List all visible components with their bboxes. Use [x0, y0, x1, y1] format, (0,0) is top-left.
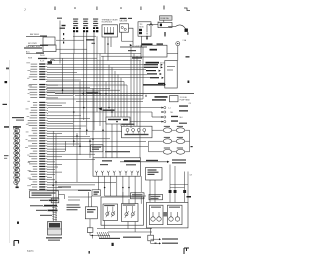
bulkhead connector column: [14, 126, 20, 184]
note rows: [40, 200, 48, 201]
trailer labels: [172, 159, 186, 160]
EEC input wire 4: [147, 73, 157, 74]
coil connector: [51, 198, 59, 203]
wire fuel relay leg 2: [154, 180, 156, 202]
lamp oval row 1: [159, 126, 190, 133]
EEC input wire 2: [144, 67, 158, 68]
inline connector box: [170, 96, 179, 102]
page fold line: [8, 60, 10, 243]
svg-text:BAT FEED: BAT FEED: [30, 33, 40, 36]
TFI module label: [120, 18, 127, 19]
harness junction wire: [120, 46, 147, 48]
thick feed wire with arrow: [143, 84, 163, 85]
wire row 101.5: [76, 101, 143, 103]
margin dot right: [188, 81, 190, 84]
connector pin column 1 labels: [73, 19, 78, 20]
wire start feed: [24, 47, 42, 48]
harness wires from label column: [47, 65, 150, 190]
sender wire 3: [152, 116, 162, 118]
connector plate box: [106, 117, 130, 124]
svg-text:2 6A: 2 6A: [183, 39, 187, 42]
wire row 58: [44, 57, 97, 59]
svg-text:SOLENOIDS: SOLENOIDS: [102, 22, 113, 24]
power ground distribution box: [93, 158, 141, 176]
ignition switch box upper: [43, 37, 55, 45]
distributor lower wire: [89, 219, 91, 228]
fusible link wire: [147, 24, 158, 26]
lamp oval row 3: [159, 148, 190, 155]
main bus wire: [55, 93, 194, 95]
connector pin column 3 labels: [93, 19, 98, 20]
fuel pump relay box: [146, 168, 163, 181]
wire row 92: [46, 91, 100, 93]
wire code text ORG BLK: [132, 57, 142, 58]
distributor wires: [87, 192, 89, 207]
distributor ground wires: [89, 232, 91, 235]
pin bus wire: [73, 35, 96, 37]
lamp oval row 2: [159, 137, 190, 144]
instrument cluster box: [122, 126, 153, 138]
svg-text:RUN: RUN: [28, 58, 33, 60]
power ground label: [105, 151, 130, 152]
fuse 20A box: [160, 16, 173, 20]
svg-text:54673: 54673: [27, 251, 34, 253]
connector terminal block: [185, 29, 188, 32]
svg-text:J: J: [24, 8, 26, 12]
oval left link wire: [148, 141, 150, 152]
wire row 99: [46, 98, 143, 100]
distributor box: [85, 207, 97, 219]
footer pilcrow: [14, 241, 19, 247]
relay bottom bus 1: [97, 228, 152, 230]
wire row 56: [101, 55, 141, 57]
top margin corner mark: [184, 8, 190, 11]
label under power box: [146, 62, 160, 64]
oval right link wire: [189, 130, 191, 152]
hot at all times header: [142, 43, 153, 45]
sender wire 2: [48, 111, 152, 113]
distributor connector: [87, 228, 93, 233]
wire from pin column 1: [73, 32, 75, 53]
wire row 85: [46, 84, 127, 86]
wire sender leg 4: [187, 172, 189, 203]
sender wire 1: [48, 107, 162, 109]
EEC input wire 3: [146, 70, 156, 71]
wire EGR right branch: [129, 28, 134, 47]
EEC input wire 5: [150, 77, 159, 78]
relay feed bus: [105, 195, 146, 197]
svg-text:C-1: C-1: [168, 108, 171, 110]
connector box C-102: [92, 190, 101, 196]
wire arc small: [50, 59, 55, 60]
margin mark a: [6, 68, 9, 70]
connector circle C: [176, 42, 180, 46]
wire from pin column 3: [93, 32, 95, 83]
left margin labels: [12, 117, 24, 118]
note text block: [67, 204, 80, 205]
top margin arrow: [164, 6, 165, 10]
wire from switch box 2: [56, 48, 87, 50]
arrow at 165: [164, 32, 165, 35]
label between units: [164, 212, 168, 217]
svg-text:C8: C8: [190, 175, 192, 177]
wire row 88.5: [46, 88, 110, 90]
relay module label box: [131, 193, 145, 199]
cluster box label: [122, 124, 135, 125]
inline pin 1: [169, 190, 172, 193]
pump ground wire 1: [150, 241, 152, 244]
svg-text:MOD: MOD: [140, 26, 145, 28]
ground hatch: [97, 232, 110, 238]
pump ground wire 2: [151, 242, 160, 244]
ignition switch box lower: [43, 45, 56, 52]
ignition coil body: [48, 222, 62, 236]
svg-text:YEL: YEL: [170, 112, 173, 114]
note box: [30, 191, 59, 198]
wire from thermactor pin 1: [104, 37, 106, 54]
footer dash right: [155, 243, 157, 244]
starter relay box: [158, 22, 172, 27]
harness vertical wires: [53, 21, 143, 199]
svg-text:C8: C8: [189, 103, 191, 105]
wire from pin column 2a: [83, 32, 85, 63]
stub below terminal: [187, 32, 188, 35]
top margin tick: [55, 7, 56, 11]
fuel pump outer box: [147, 202, 189, 228]
inline pin 2: [174, 190, 177, 193]
wire sender leg 1: [169, 165, 171, 203]
wire row 95.5: [75, 95, 143, 97]
svg-text:R-LG: R-LG: [40, 61, 45, 63]
inline pin 3: [183, 190, 186, 193]
label row under box: [58, 186, 71, 187]
svg-text:BLK: BLK: [180, 117, 184, 119]
small mark: [17, 222, 19, 224]
svg-text:KEY PWR: KEY PWR: [28, 43, 37, 45]
wire code text PLE: [128, 50, 136, 51]
inertia switch label box: [149, 194, 163, 199]
bus tick: [146, 95, 147, 97]
pump connector bottom: [148, 235, 154, 241]
sender jog wire: [151, 112, 153, 117]
wire fusible link down: [146, 25, 148, 33]
svg-text:W-LB: W-LB: [40, 55, 45, 57]
text label bottom-left of coil area: [48, 61, 53, 64]
wire pump down: [150, 228, 152, 235]
margin arrow bottom: [112, 243, 114, 246]
arrow into harness: [130, 44, 132, 46]
arrow down to box: [146, 36, 147, 39]
junction dots below box: [104, 187, 106, 189]
wire stub near distributor 2: [68, 199, 80, 201]
coil twisted pair hatch: [52, 205, 57, 220]
footer tick: [89, 251, 90, 254]
power distribution box: [141, 45, 167, 57]
svg-text:VACUUM: VACUUM: [120, 20, 128, 23]
connector pin column 3 pins: [93, 27, 95, 29]
tie wire 1: [170, 184, 188, 186]
connector column tail: [16, 183, 18, 187]
TFI module box: [138, 22, 151, 36]
top margin tick: [140, 7, 143, 11]
relay module outer box: [101, 197, 144, 225]
connector pin column 1 pins: [73, 27, 75, 29]
connector pin column 2 pins: [83, 27, 85, 29]
svg-text:FUSE 20A: FUSE 20A: [161, 17, 170, 20]
fuel label row: [155, 96, 168, 98]
wire stub near distributor 1: [68, 196, 91, 198]
wire from pin column 2b: [86, 32, 88, 74]
wire row 60: [50, 60, 141, 62]
top margin tick: [74, 7, 76, 9]
wire row 47: [120, 46, 147, 48]
thermactor solenoids box: [102, 25, 118, 37]
dashed marks: [63, 33, 64, 35]
wire row 81.5: [46, 81, 124, 83]
footer corner right: [184, 248, 189, 254]
wire from switch box 1: [56, 39, 84, 41]
svg-text:C-102: C-102: [135, 46, 140, 48]
sender wire 4: [48, 121, 162, 123]
top margin tick: [96, 7, 99, 11]
wire from thermactor pin 2: [107, 37, 109, 61]
left harness label column: [25, 63, 47, 191]
relay 1 (EEC power): [103, 204, 118, 221]
wire fuel relay leg 1: [149, 180, 151, 202]
relay top wires: [122, 192, 124, 204]
bottom center labels: [99, 238, 120, 239]
stub right of power box: [186, 56, 190, 57]
note box link wire: [59, 194, 65, 196]
svg-text:IGN START RUN: IGN START RUN: [26, 45, 40, 48]
wire from thermactor pin 3: [110, 37, 112, 47]
coil label: [46, 237, 62, 238]
pin column 4 pins: [96, 27, 98, 29]
relay bottom bus 2: [108, 231, 152, 233]
wire EGR down: [121, 32, 123, 41]
EEC module box: [165, 61, 177, 89]
margin mark: [5, 81, 8, 83]
margin mark: [3, 104, 8, 105]
fuel pump left unit: [150, 205, 164, 225]
arrow C-102: [98, 107, 101, 110]
connector pin column 2 labels: [83, 19, 88, 20]
EGR solenoid box: [120, 24, 129, 32]
wire sender leg 3: [184, 172, 186, 203]
wire TFI down: [141, 36, 143, 47]
distribution box pins: [95, 171, 139, 176]
junction dots: [52, 89, 117, 186]
wires below distribution box: [99, 176, 142, 196]
wire connector down: [177, 46, 179, 61]
ground label box: [91, 145, 104, 152]
wire relay to connector arc: [169, 27, 171, 28]
svg-text:PUMP TANK: PUMP TANK: [180, 99, 191, 102]
wire sender leg 2: [174, 166, 176, 202]
EEC input wire 1: [144, 64, 158, 65]
arrow on bus: [82, 92, 84, 94]
relay 2 (fuel pump): [122, 204, 139, 222]
wire cluster to ovals: [152, 129, 159, 131]
wire row 53.5: [60, 53, 141, 55]
trailer tow wire: [120, 161, 167, 163]
margin mark right ovals: [191, 146, 193, 147]
left margin small labels: [4, 155, 9, 156]
coil feed wires: [52, 198, 54, 222]
top margin tick: [120, 7, 122, 9]
fuel pump right unit: [168, 205, 183, 225]
tie wire 2: [170, 187, 185, 189]
wire fuse down: [163, 20, 165, 22]
stub right margin: [187, 196, 192, 198]
label TO coil: [86, 39, 95, 40]
